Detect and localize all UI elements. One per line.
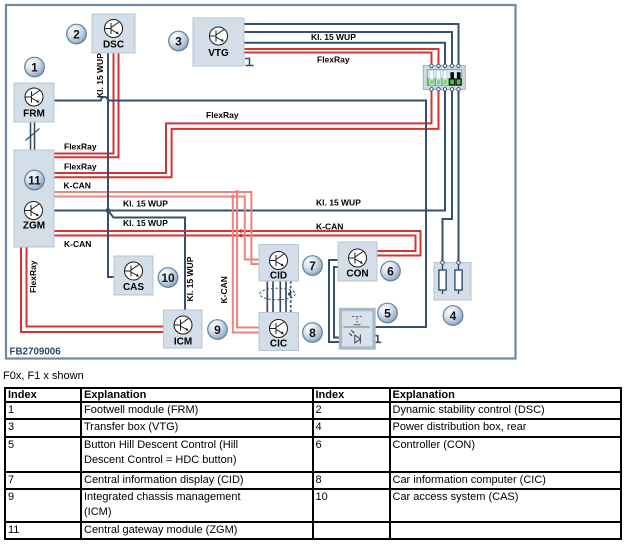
control unit CID box — [259, 245, 299, 282]
index circle 4 — [443, 306, 463, 326]
ground terminal at VTG — [245, 59, 254, 66]
fuse connector block — [423, 64, 465, 91]
svg-text:FlexRay: FlexRay — [64, 142, 97, 152]
svg-text:K-CAN: K-CAN — [316, 222, 343, 232]
control unit VTG box — [193, 18, 244, 66]
index circle 2 — [67, 24, 87, 44]
svg-text:Kl. 15 WUP: Kl. 15 WUP — [185, 256, 195, 301]
wire K-CAN pair: ZGM right to loop around CON — [54, 231, 421, 256]
control unit CIC box — [259, 313, 299, 351]
index circle 3 — [169, 31, 189, 51]
svg-text:FRM: FRM — [23, 109, 45, 120]
svg-text:FB2709006: FB2709006 — [10, 347, 62, 358]
svg-text:Kl. 15 WUP: Kl. 15 WUP — [123, 199, 168, 209]
svg-text:FlexRay: FlexRay — [64, 162, 97, 172]
control unit ZGM box — [14, 150, 54, 247]
junction dot K-CAN tap upper — [235, 190, 239, 194]
twisted pair wires FRM to ZGM — [31, 122, 35, 150]
svg-text:4: 4 — [450, 309, 457, 323]
wire Kl.15 WUP: VTG pin to fuse box pin 3 — [244, 43, 445, 66]
control unit FRM box — [14, 83, 54, 122]
junction node Kl.15 WUP — [106, 208, 111, 213]
wire FlexRay pair: ZGM bottom to ICM — [21, 247, 164, 332]
wire: FRM to HDC button (with hop over DSC line) — [54, 97, 426, 327]
index circle 8 — [303, 323, 323, 343]
svg-text:K-CAN: K-CAN — [64, 239, 91, 249]
wire Kl.15 WUP branch: junction to ICM — [108, 211, 185, 311]
svg-text:10: 10 — [161, 271, 175, 285]
dashed wire CID to CIC — [290, 281, 292, 313]
svg-text:DSC: DSC — [103, 40, 124, 51]
wire: CON to HDC button inner — [334, 267, 341, 338]
index circle 10 — [158, 268, 178, 288]
svg-text:6: 6 — [387, 264, 394, 278]
junction dot on K-CAN pair line a — [239, 229, 242, 232]
svg-text:FlexRay: FlexRay — [28, 260, 38, 293]
dot on dashed wire — [288, 292, 291, 295]
svg-text:Kl. 15 WUP: Kl. 15 WUP — [316, 198, 361, 208]
svg-text:3: 3 — [175, 34, 182, 48]
index circle 7 — [303, 256, 323, 276]
wire K-CAN branch pair (light): bus tap down to CIC — [233, 192, 259, 333]
svg-text:5: 5 — [384, 306, 391, 320]
wire FlexRay pair: ZGM up and right to fuse box pins 1,2 — [54, 89, 439, 177]
svg-text:K-CAN: K-CAN — [219, 276, 229, 303]
svg-text:CIC: CIC — [270, 339, 287, 350]
svg-text:FlexRay: FlexRay — [317, 55, 350, 65]
junction dot on K-CAN pair line b — [239, 234, 242, 237]
dashed ellipse cable marker — [260, 288, 296, 300]
control unit ICM box — [164, 310, 203, 348]
junction dot K-CAN tap lower — [231, 195, 235, 199]
svg-text:7: 7 — [309, 259, 316, 273]
index circle 11 — [25, 170, 45, 190]
index circle 6 — [381, 261, 401, 281]
wire Kl.15 WUP: DSC down to CAS — [108, 53, 114, 277]
wire Kl.15 WUP main bus: fuse box pin 3 down and left to junction node — [108, 89, 445, 211]
wire: CON to HDC button outer — [329, 260, 341, 342]
ground terminal at HDC button — [374, 336, 382, 343]
wire: fuse box pin 4 to power distribution box fuse F1 — [443, 89, 453, 263]
wires: CID to CIC monitor cable (4 lines) — [267, 281, 286, 313]
index circle 5 — [378, 303, 398, 323]
wire Kl.15 WUP: VTG pin to fuse box pin 5 — [244, 24, 459, 66]
break slash on FRM-ZGM pair — [26, 129, 40, 141]
HDC button box (item 5) — [341, 310, 375, 349]
wire FlexRay pair: VTG to fuse box pins 1,2 top — [244, 49, 439, 66]
svg-text:CON: CON — [346, 269, 368, 280]
schematic frame — [6, 5, 516, 359]
svg-text:FlexRay: FlexRay — [206, 110, 239, 120]
wire Kl.15 WUP: junction node to ZGM — [54, 210, 108, 212]
power distribution box rear (item 4) — [434, 261, 471, 300]
svg-text:CID: CID — [270, 271, 287, 282]
wire FlexRay pair: ZGM to DSC — [54, 53, 119, 157]
wire Kl.15 WUP: VTG pin to fuse box pin 4 — [244, 32, 452, 66]
svg-text:ZGM: ZGM — [23, 221, 45, 232]
svg-text:Kl. 15 WUP: Kl. 15 WUP — [123, 218, 168, 228]
svg-text:ICM: ICM — [174, 337, 192, 348]
index circle 1 — [25, 57, 45, 77]
svg-text:Kl. 15 WUP: Kl. 15 WUP — [311, 32, 356, 42]
wire K-CAN pair (light): ZGM to CID — [54, 192, 259, 264]
svg-text:CAS: CAS — [123, 282, 144, 293]
wire: fuse box pin 5 to power distribution box fuse F2 — [458, 89, 460, 263]
control unit CAS box — [114, 256, 153, 295]
index circle 9 — [208, 320, 228, 340]
control unit DSC box — [92, 14, 135, 53]
svg-text:K-CAN: K-CAN — [64, 181, 91, 191]
svg-text:2: 2 — [73, 27, 80, 41]
svg-text:VTG: VTG — [208, 48, 229, 59]
svg-text:11: 11 — [28, 173, 41, 187]
svg-text:8: 8 — [309, 326, 316, 340]
control unit CON box — [338, 242, 377, 281]
svg-text:Kl. 15 WUP: Kl. 15 WUP — [95, 53, 105, 98]
svg-text:1: 1 — [31, 60, 38, 74]
svg-text:9: 9 — [214, 323, 221, 337]
